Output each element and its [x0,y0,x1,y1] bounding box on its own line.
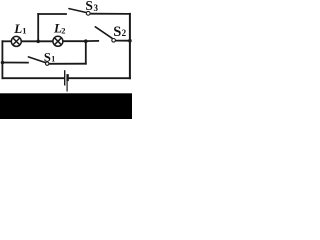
wire: S2 right contact to right vertical [116,40,130,42]
wire: S1 row right segment from S1 to branch corner [49,63,86,65]
switch S1 pivot circle [46,62,49,65]
wire: top row left segment to S3 [38,13,66,15]
battery: stray scan mark below negative plate [66,81,68,92]
node B: junction dot main row with S1 branch [84,39,88,43]
svg-text:1: 1 [51,54,55,63]
svg-text:L: L [13,21,22,36]
svg-text:2: 2 [61,25,65,35]
svg-text:S: S [44,50,51,64]
lamp L2 [53,36,63,46]
svg-text:2: 2 [122,28,127,38]
wire: S1 branch vertical from node B down to S1 row [85,41,87,64]
wire: S3 branch vertical from node A up to top row [37,14,39,41]
svg-text:1: 1 [22,25,26,35]
switch S3 blade [69,9,86,13]
lamp L1 [11,36,21,46]
wire: main row, L2 to node B [63,40,86,42]
svg-text:S: S [113,24,121,40]
wire: top row right segment from S3 to top-right corner [90,13,129,15]
node D: junction dot right vertical with S2 wire [128,39,132,43]
wire: S1 row left segment [2,62,28,64]
wire: left vertical (node between L1 branch and battery) [1,41,3,78]
switch S2 blade [95,27,112,38]
node A: junction dot L1/L2 with S3 branch [36,40,40,44]
switch S3 pivot circle [86,11,90,15]
wire: right vertical from top row down to bottom row [129,14,131,78]
switch S1 blade [28,57,46,63]
wire: node B to S2 left contact [86,40,98,42]
node C: junction dot left vertical with S1 row [1,61,5,65]
wire: bottom row left segment to battery [2,77,63,79]
switch S2 pivot circle [112,39,116,43]
svg-text:3: 3 [94,3,99,13]
svg-text:S: S [85,0,93,13]
black band at bottom (scan artifact) [0,93,132,119]
wire: bottom row right segment from battery to right corner [69,77,130,79]
battery cell: short negative plate (thick) [66,74,68,81]
wire: main row, L1 to L2 through node A [22,40,53,42]
battery cell: long positive plate [64,70,66,85]
wire: main row, left corner to L1 [2,40,11,42]
